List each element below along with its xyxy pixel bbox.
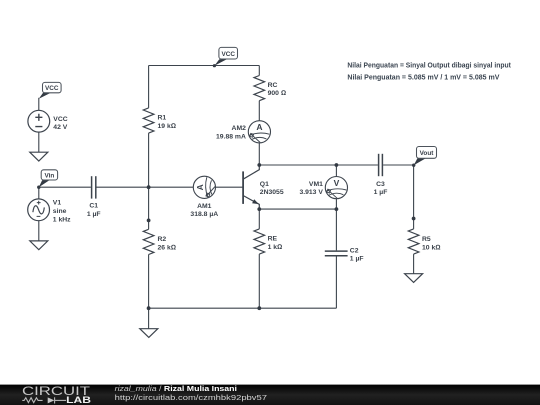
svg-text:V: V [334,178,340,188]
wire RC top lead [258,66,260,76]
wire R1 bottom to R2 top [148,133,150,229]
wire V1 bottom lead [38,221,40,241]
svg-text:R1: R1 [158,115,167,122]
ground (below R5) [405,274,423,283]
wire VM1 bottom lead [335,199,337,209]
svg-text:10 kΩ: 10 kΩ [422,244,440,251]
svg-text:A: A [256,122,262,132]
svg-text:Vout: Vout [420,150,435,157]
svg-text:RC: RC [268,82,278,89]
junction VM1 top node [335,163,339,167]
wire main ground stem [148,308,150,329]
ground (below VCC source) [30,152,48,161]
wire Vin node to C1 [39,186,91,188]
svg-text:http://circuitlab.com/czmhbk92: http://circuitlab.com/czmhbk92pbv57 [115,393,267,402]
junction bottom rail ground tap [147,306,151,310]
ammeter AM1 [190,176,218,218]
resistor RC [254,76,265,101]
junction R1/R2 base node [147,185,151,189]
svg-text:AM1: AM1 [197,203,212,210]
wire collector row right of C3 [383,164,414,166]
svg-text:Nilai Penguatan = Sinyal Outpu: Nilai Penguatan = Sinyal Output dibagi s… [347,63,511,70]
wire C2 bottom lead [335,256,337,308]
svg-text:Nilai Penguatan = 5.085 mV / 1: Nilai Penguatan = 5.085 mV / 1 mV = 5.08… [347,75,499,82]
svg-text:19.88 mA: 19.88 mA [216,133,246,140]
svg-text:3.913 V: 3.913 V [299,189,323,196]
svg-text:1 µF: 1 µF [350,256,364,263]
svg-text:1 kΩ: 1 kΩ [268,244,283,251]
junction R2 top wire joint [147,219,151,223]
svg-text:A: A [195,184,205,190]
svg-text:RE: RE [268,236,278,243]
svg-text:2N3055: 2N3055 [260,189,284,196]
resistor R1 [143,108,154,133]
wire top rail [149,65,260,67]
voltmeter VM1 [299,177,347,199]
wire VCC source bottom lead [38,132,40,152]
svg-text:VCC: VCC [221,51,235,58]
node VCC label (top) [214,47,237,65]
junction R5 top wire joint [412,217,416,221]
wire RC to AM2 [258,101,260,121]
node Vout wire corner [412,164,415,167]
svg-text:VCC: VCC [45,85,59,92]
svg-text:C1: C1 [89,202,98,209]
svg-text:C3: C3 [376,181,385,188]
capacitor C3 [379,154,383,176]
wire C1 to AM1 [97,186,194,188]
svg-text:VM1: VM1 [309,181,323,188]
junction VM1 bottom node [335,207,339,211]
node Vin wire end [37,186,40,189]
wire collector row left [259,164,378,166]
svg-text:Vin: Vin [44,172,54,179]
capacitor C1 [92,176,96,198]
CircuitLab logo diode triangle [48,397,55,403]
wire emitter row [259,208,336,210]
node VCC tap on top rail [213,64,216,67]
junction Q1 collector node [257,163,261,167]
wire Vout stem to R5 [413,165,415,229]
wire bottom rail [149,307,337,309]
svg-text:1 µF: 1 µF [87,211,101,218]
node Vin label [39,170,58,187]
svg-text:26 kΩ: 26 kΩ [158,244,176,251]
svg-text:R5: R5 [422,236,431,243]
wire RE top lead [258,209,260,229]
svg-text:1 µF: 1 µF [374,189,388,196]
wire R2 bottom to bottom rail [148,255,150,309]
resistor R5 [408,229,419,254]
CircuitLab logo resistor-diode glyph [22,397,66,403]
source V1 (sine source) [28,199,71,223]
resistor RE [254,229,265,254]
wire C2 top lead [335,209,337,250]
svg-text:LAB: LAB [66,395,91,405]
svg-text:sine: sine [53,208,67,215]
svg-text:R2: R2 [158,236,167,243]
resistor R2 [143,229,154,254]
svg-text:Q1: Q1 [260,181,269,188]
ammeter AM2 [216,121,270,143]
node Vout label [414,147,437,166]
svg-text:C2: C2 [350,247,359,254]
transistor Q1 [243,165,284,209]
footer bar [0,385,540,405]
wire AM1 to Q1 base [216,186,244,188]
capacitor C2 [325,251,348,256]
node VCC label (left) [39,82,61,98]
svg-text:900 Ω: 900 Ω [268,90,286,97]
wire V1 top lead [38,187,40,199]
wire VCC source top lead [38,98,40,111]
ground (below V1) [30,241,48,250]
svg-text:rizal_mulia / Rizal Mulia Insa: rizal_mulia / Rizal Mulia Insani [115,384,237,393]
source VCC (DC voltage source) [28,110,68,132]
svg-text:VCC: VCC [53,116,67,123]
wire R1 top lead [148,66,150,108]
svg-text:1 kHz: 1 kHz [53,216,71,223]
svg-text:42 V: 42 V [53,124,67,131]
wire R5 bottom to ground [413,254,415,274]
svg-text:19 kΩ: 19 kΩ [158,123,176,130]
junction RE bottom rail [257,306,261,310]
svg-text:318.8 µA: 318.8 µA [190,211,218,218]
ground (main, bottom rail) [140,329,158,338]
wire RE bottom lead [258,254,260,308]
svg-text:V1: V1 [53,200,62,207]
wire VM1 top lead [335,165,337,177]
wire AM2 to collector node [258,143,260,165]
junction Q1 emitter node [257,207,261,211]
svg-text:AM2: AM2 [232,125,247,132]
